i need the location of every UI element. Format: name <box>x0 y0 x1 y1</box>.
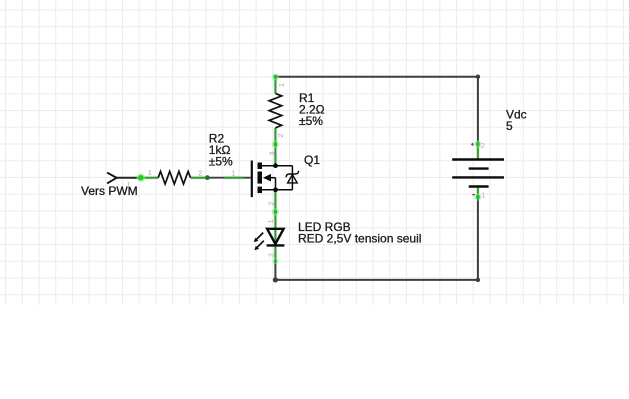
svg-text:1: 1 <box>268 219 275 223</box>
svg-text:3: 3 <box>270 152 277 156</box>
battery plate short bottom <box>469 185 489 187</box>
battery Vdc <box>452 160 504 187</box>
wire: green battery top lead <box>477 142 479 160</box>
battery plate long top <box>452 158 504 160</box>
label: battery plus sign <box>471 143 474 146</box>
svg-text:±5%: ±5% <box>209 154 233 168</box>
wire: right vertical into battery top <box>477 77 479 142</box>
svg-text:1: 1 <box>231 171 235 178</box>
node: junction dot bottom-left corner (LED to rail) <box>273 277 278 282</box>
node: terminal glow LED pin1 <box>272 208 279 215</box>
wire: port stem dark segment <box>117 177 141 179</box>
body diode cathode bar with hooks <box>286 171 298 177</box>
channel bar bottom (source) <box>258 187 263 194</box>
substrate arrow <box>263 174 271 182</box>
substrate-to-source link <box>275 178 277 190</box>
wire: green gate lead R2 pin2 <box>191 177 208 179</box>
resistor R1 zigzag (vertical) <box>269 93 282 128</box>
node: junction dot bottom-right corner <box>476 278 480 282</box>
wire: battery bottom down to bottom rail <box>477 199 479 280</box>
wire: LED bottom dark segment <box>274 263 276 281</box>
node: junction dot bright green (port to R2) <box>137 174 145 182</box>
svg-text:2: 2 <box>269 202 276 206</box>
svg-text:Q1: Q1 <box>304 153 320 167</box>
transistor Q1 N-MOSFET <box>252 161 299 198</box>
LED cathode bar <box>267 244 285 246</box>
wire: green gate lead port to R2 <box>141 177 158 179</box>
svg-text:1: 1 <box>279 83 286 87</box>
drain line <box>262 165 292 167</box>
wire: green vertical R1 pin1 lead <box>274 77 276 94</box>
wire glow underlay (green nets) <box>141 77 478 264</box>
svg-text:1: 1 <box>481 190 485 199</box>
wire: gate net dark segment from R2 pin2 to Q1 gate <box>207 177 250 179</box>
label: battery minus sign <box>472 194 474 196</box>
node: terminal glow R1 pin1 <box>272 73 279 80</box>
channel bar middle (body) <box>258 172 263 184</box>
svg-text:RED 2,5V tension seuil: RED 2,5V tension seuil <box>298 232 421 246</box>
LED triangle <box>267 229 284 244</box>
svg-text:2: 2 <box>198 171 202 178</box>
body diode triangle <box>288 175 298 183</box>
wire: green battery bottom lead <box>477 187 479 200</box>
LED arrow 1 <box>257 233 264 240</box>
diode LED <box>254 229 285 251</box>
channel bar top (drain) <box>258 163 263 170</box>
node: terminal glow R1 pin2 / Q1 drain <box>272 141 279 148</box>
svg-text:5: 5 <box>506 119 513 133</box>
port: Vers PWM input chevron <box>107 173 117 184</box>
wire: green gate lead Q1 gate pin <box>224 177 243 179</box>
node: junction dot top-right corner <box>476 75 480 79</box>
svg-text:2: 2 <box>481 141 485 150</box>
body diode vertical link <box>291 166 293 190</box>
wire: green vertical LED cathode lead <box>274 245 276 263</box>
svg-text:2: 2 <box>278 134 285 138</box>
resistor R2 zigzag <box>158 171 190 184</box>
svg-text:1: 1 <box>127 182 131 189</box>
svg-text:2: 2 <box>269 253 276 257</box>
LED arrow 2 <box>257 241 264 248</box>
node: Q1 drain junction dot <box>273 163 278 168</box>
node: terminal glow LED pin2 <box>272 258 278 264</box>
source line <box>262 189 292 191</box>
svg-text:1: 1 <box>148 170 152 177</box>
node: terminal glow battery pin1 <box>474 193 481 200</box>
node: terminal glow battery pin2 <box>474 140 481 147</box>
svg-text:±5%: ±5% <box>299 114 323 128</box>
wire: top net from R1 pin1 to battery + (dark) <box>275 76 478 78</box>
wire: bottom net from LED cathode corner to battery - (dark) <box>275 279 478 281</box>
battery plate short upper <box>469 167 489 169</box>
node: junction dot dark green (R2 pin2) <box>205 175 210 180</box>
wire: green vertical R1 pin2 to Q1 drain <box>274 128 276 166</box>
battery plate long lower <box>452 176 504 178</box>
gate bar <box>251 161 253 198</box>
wire: green vertical Q1 source to LED anode <box>274 190 276 244</box>
node: Q1 source junction dot <box>273 187 278 192</box>
grid (decorative) <box>0 0 629 305</box>
